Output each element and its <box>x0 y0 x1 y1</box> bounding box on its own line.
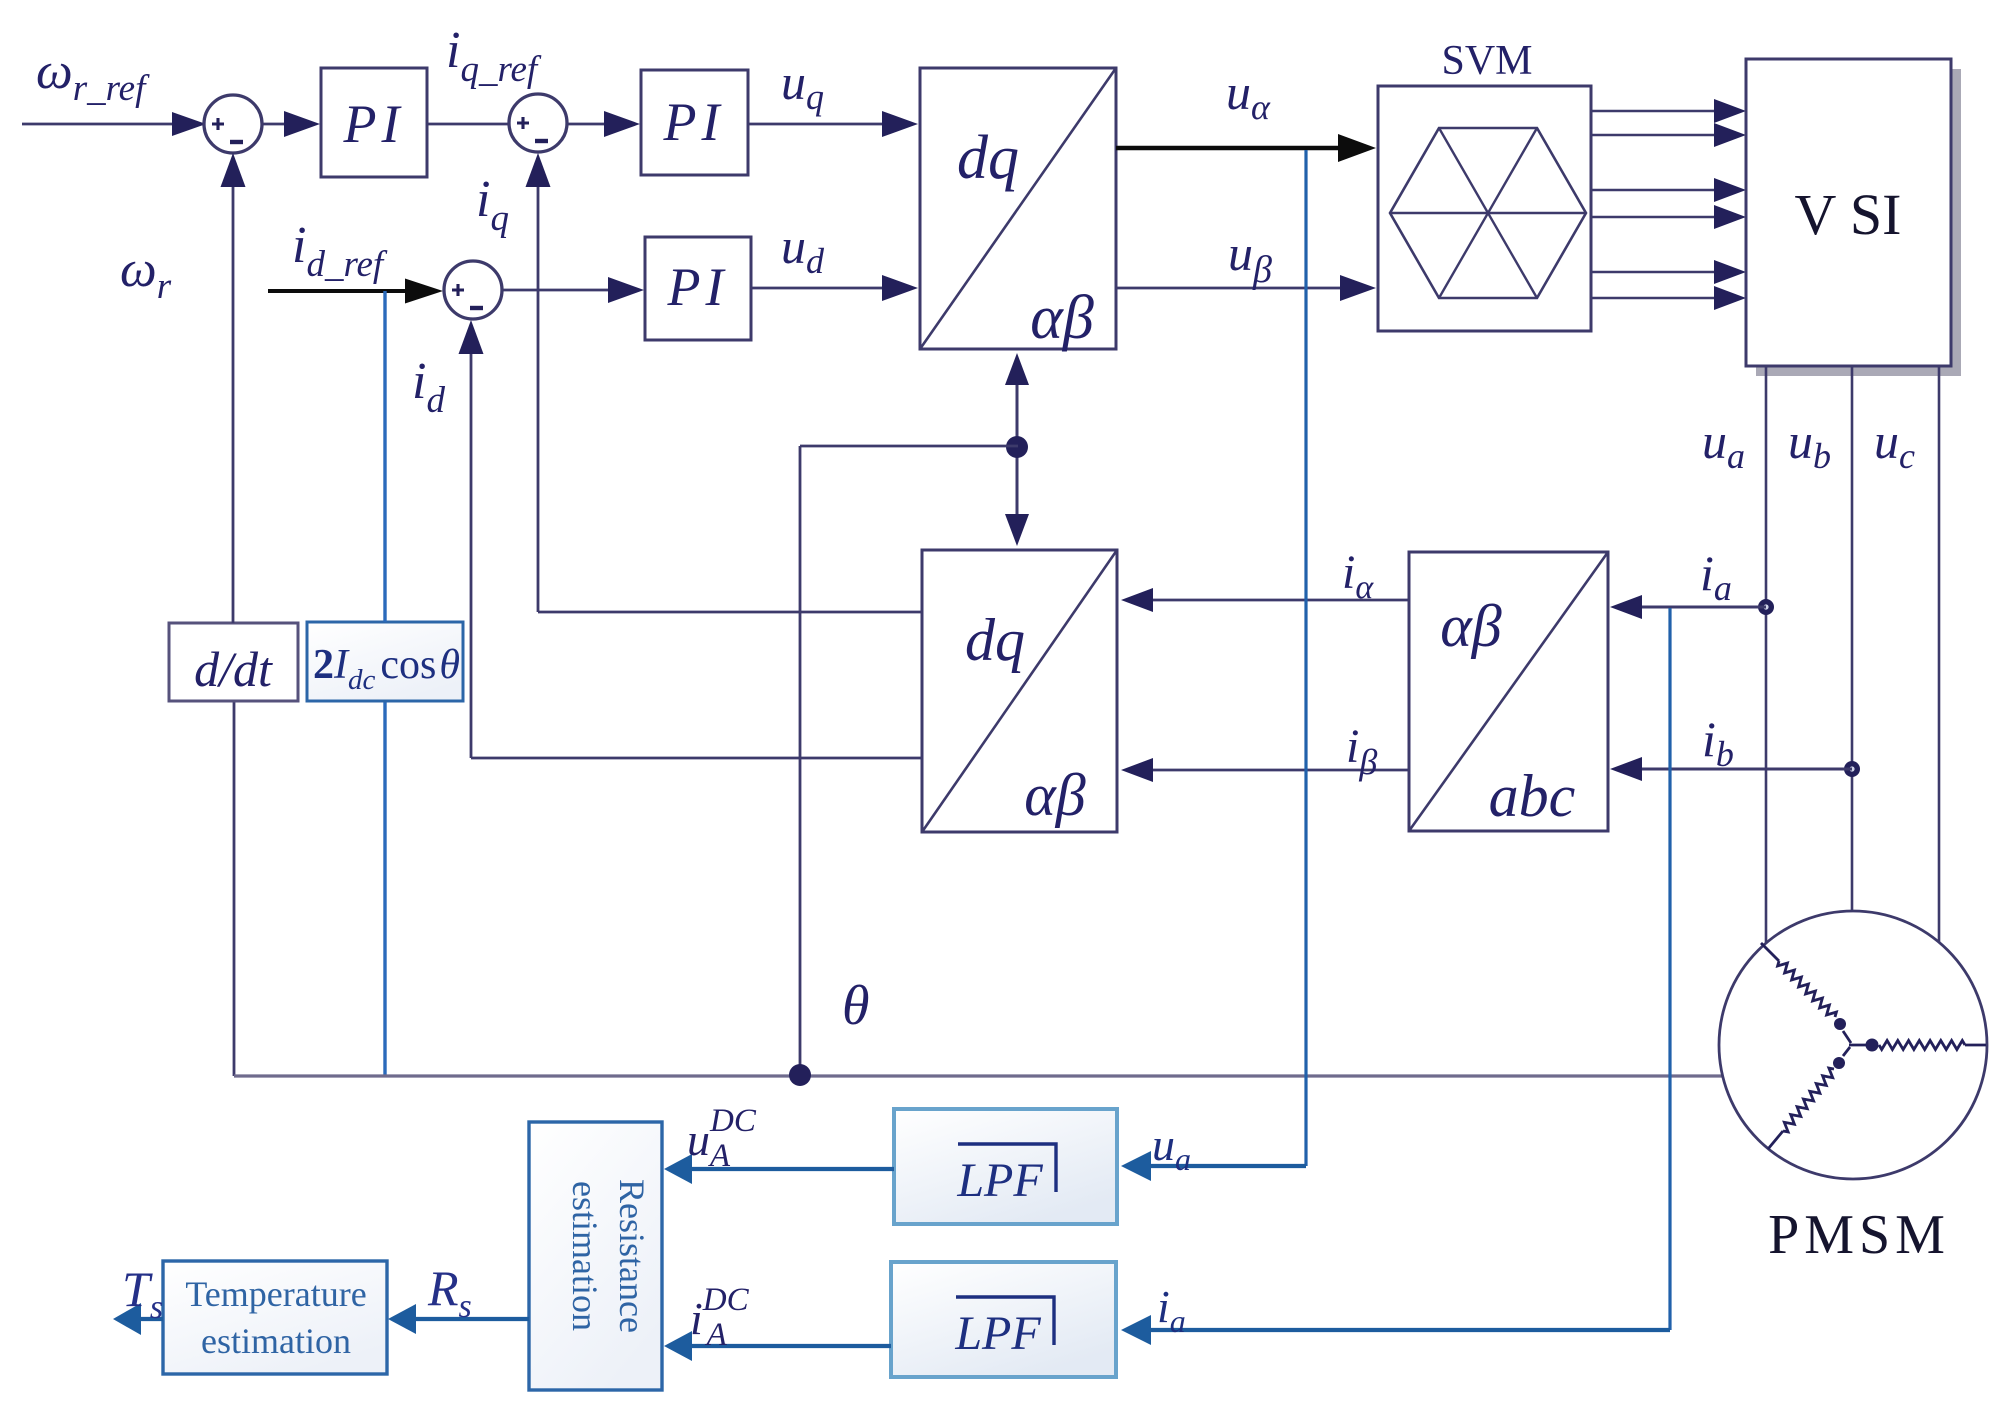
block LPF2 <box>891 1262 1116 1377</box>
wire phase a (VSI down to PMSM) <box>1765 366 1768 944</box>
wire SVM to VSI gate 1 <box>1591 110 1728 113</box>
svg-text:SVM: SVM <box>1441 38 1532 84</box>
wire u_a sense (blue vertical) <box>1304 150 1307 1166</box>
svg-text:PI: PI <box>343 94 405 154</box>
wire theta bus to d/dt <box>233 701 236 1076</box>
wire SVM to VSI gate 6 <box>1591 297 1728 300</box>
wire omega_r_ref input <box>22 123 206 126</box>
svg-text:Resistance: Resistance <box>612 1179 652 1333</box>
svg-text:θ: θ <box>842 975 870 1037</box>
wire 2Idc block to i_d_ref wire (blue) <box>383 291 386 622</box>
block Resistance estimation <box>529 1122 662 1390</box>
junction dot i_b tap <box>1844 761 1860 777</box>
wire d/dt to S1 (omega_r) <box>232 166 235 623</box>
wire u_A_DC <box>680 1167 894 1171</box>
wire i_q feedback <box>538 611 922 614</box>
svg-text:αβ: αβ <box>1030 284 1094 352</box>
wire PI2 to dq1 (u_q) <box>748 123 902 126</box>
wire theta bus <box>234 1074 1722 1077</box>
svg-text:d/dt: d/dt <box>194 641 273 697</box>
svg-text:αβ: αβ <box>1024 762 1085 828</box>
wire SVM to VSI gate 3 <box>1591 189 1728 192</box>
wire theta to dq blocks (vertical) <box>1016 360 1019 540</box>
wire i_a sense (blue vertical) <box>1668 608 1671 1330</box>
svg-text:LPF: LPF <box>954 1307 1041 1360</box>
svg-text:dq: dq <box>965 607 1025 673</box>
wire PI3 to dq1 (u_d) <box>751 287 902 290</box>
wire i_b to abc block <box>1624 768 1852 771</box>
wire phase c <box>1938 366 1941 942</box>
motor PMSM symbol <box>1719 911 1987 1179</box>
wire SVM to VSI gate 5 <box>1591 271 1728 274</box>
svg-text:estimation: estimation <box>565 1181 605 1331</box>
junction dot i_a tap <box>1758 599 1774 615</box>
wire i_d_ref input (black) <box>268 289 430 293</box>
junction dot theta bus <box>789 1064 811 1086</box>
block PI3 <box>645 237 751 340</box>
svg-text:V SI: V SI <box>1795 182 1902 247</box>
wire i_a sense to LPF2 <box>1138 1328 1670 1332</box>
wire u_beta <box>1116 287 1360 290</box>
summing junction S3 <box>444 261 502 319</box>
svg-text:PI: PI <box>663 92 725 152</box>
svg-text:Temperature: Temperature <box>185 1274 366 1314</box>
svg-text:PI: PI <box>667 257 729 317</box>
svg-text:LPF: LPF <box>956 1154 1043 1207</box>
wire i_alpha <box>1148 599 1409 602</box>
wire PI1 to S2 <box>427 123 509 126</box>
svg-text:dq: dq <box>957 124 1019 192</box>
block Clarke (alpha-beta from abc) <box>1409 552 1608 831</box>
block LPF1 <box>894 1109 1117 1224</box>
wire phase b <box>1851 366 1854 913</box>
wire theta bus to 2Idc block (blue) <box>383 701 386 1076</box>
block 2Idc cos theta <box>307 622 463 701</box>
wire S3 to PI3 <box>502 289 628 292</box>
block VSI <box>1756 69 1961 376</box>
wire i_A_DC <box>680 1344 891 1348</box>
wire theta link horizontal <box>800 445 1018 448</box>
block d/dt <box>169 623 298 701</box>
wire u_a sense to LPF1 <box>1138 1164 1306 1168</box>
wire S1 to PI1 <box>262 123 304 126</box>
wire S2 to PI2 <box>567 123 624 126</box>
summing junction S1 <box>204 95 262 153</box>
block dq1 (dq to alpha-beta) <box>920 68 1116 349</box>
wire SVM to VSI gate 4 <box>1591 216 1728 219</box>
block Temperature estimation <box>163 1261 387 1374</box>
wire i_d feedback <box>471 757 922 760</box>
block PI1 <box>321 68 427 177</box>
wire theta link vertical to theta bus <box>799 446 802 1076</box>
wire i_beta <box>1148 769 1409 772</box>
wire SVM to VSI gate 2 <box>1591 134 1728 137</box>
wire R_s <box>404 1317 529 1321</box>
svg-text:PMSM: PMSM <box>1768 1204 1950 1266</box>
wire T_s output <box>130 1317 163 1321</box>
block SVM <box>1378 86 1591 331</box>
junction dot theta link <box>1006 436 1028 458</box>
block PI2 <box>641 70 748 175</box>
wire u_alpha (black) <box>1116 146 1358 151</box>
svg-text:estimation: estimation <box>201 1321 351 1361</box>
svg-text:abc: abc <box>1489 763 1576 829</box>
svg-text:αβ: αβ <box>1440 593 1501 659</box>
block dq2 (alpha-beta to dq) <box>922 550 1117 832</box>
wire i_a to abc block <box>1624 606 1766 609</box>
summing junction S2 <box>509 94 567 152</box>
